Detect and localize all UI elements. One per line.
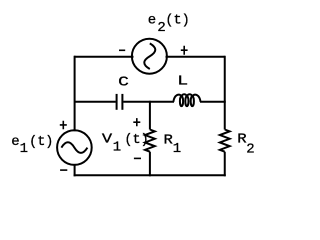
- svg-text:e: e: [148, 12, 156, 28]
- svg-text:C: C: [118, 74, 129, 90]
- e1 minus sign: [60, 169, 67, 171]
- V1 minus sign: [134, 157, 141, 159]
- wire top-left (node a to e2 left terminal): [74, 56, 134, 58]
- svg-text:e: e: [11, 134, 19, 150]
- svg-text:1: 1: [20, 141, 28, 157]
- wire bottom rail: [74, 174, 226, 176]
- wire R1 bottom lead (R1 to bottom rail): [149, 152, 151, 177]
- wire right rail lower (R2 to bottom rail): [224, 152, 226, 177]
- inductor L coil top humps: [173, 94, 200, 102]
- wire middle left (left rail to capacitor): [75, 101, 116, 103]
- source e1 sine wave: [61, 142, 87, 153]
- svg-text:1: 1: [173, 141, 181, 157]
- inductor L coil loop 2: [185, 96, 188, 106]
- svg-text:R: R: [164, 133, 173, 148]
- wire left rail upper (node a down to e1 + terminal): [74, 56, 76, 132]
- wire R1 top lead (node c down to R1): [149, 101, 151, 130]
- svg-text:(t): (t): [165, 14, 189, 29]
- svg-text:R: R: [237, 132, 246, 147]
- svg-text:2: 2: [246, 142, 254, 158]
- resistor R2 zigzag: [220, 130, 230, 152]
- source e2 circle: [132, 39, 167, 74]
- wire left rail lower (e1 - terminal to bottom rail): [74, 164, 76, 176]
- svg-text:1: 1: [113, 140, 121, 156]
- inductor L coil loop 1: [180, 96, 183, 106]
- source e1 circle: [57, 130, 92, 165]
- e2 minus sign: [119, 49, 125, 51]
- inductor L coil loop 3: [191, 96, 194, 106]
- e2 plus sign: [181, 46, 188, 55]
- V1 plus sign: [133, 118, 140, 126]
- capacitor C left plate: [116, 94, 118, 110]
- wire middle center (capacitor to inductor, through node c): [123, 101, 174, 103]
- wire right rail upper (node b down to R2): [224, 56, 226, 130]
- svg-text:V: V: [102, 131, 113, 147]
- source e2 sine wave: [144, 43, 155, 69]
- capacitor C right plate: [121, 94, 123, 110]
- svg-text:L: L: [177, 73, 188, 89]
- wire top-right (e2 right terminal to node b): [166, 56, 225, 58]
- svg-text:(t): (t): [29, 135, 53, 150]
- wire middle right (inductor to right rail): [200, 101, 226, 103]
- e1 plus sign: [60, 121, 67, 129]
- resistor R1 zigzag: [145, 130, 155, 152]
